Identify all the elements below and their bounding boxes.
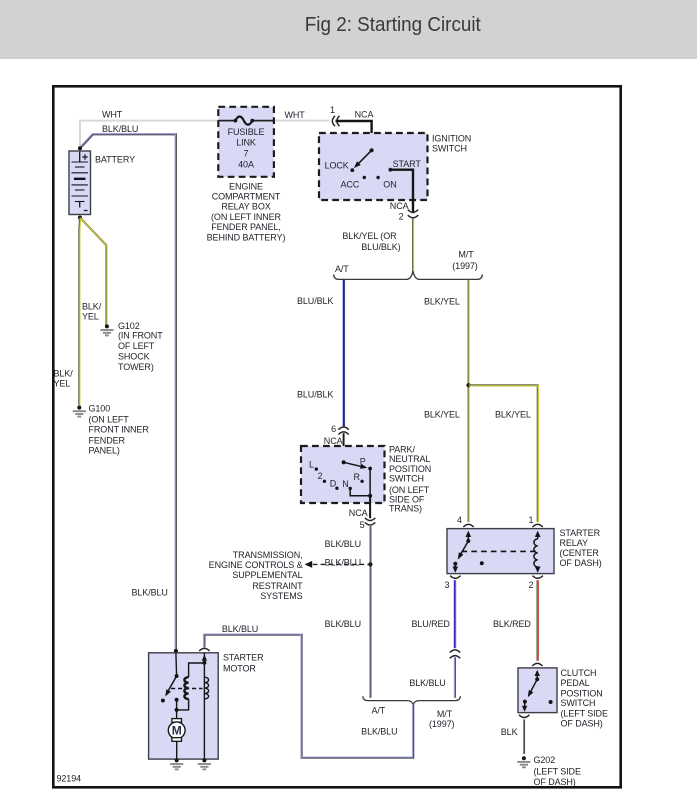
junction to transmission controls [368,562,372,566]
svg-text:P: P [360,457,366,467]
svg-text:FENDER: FENDER [89,435,126,445]
svg-text:(LEFT SIDE: (LEFT SIDE [534,767,581,777]
svg-text:BATTERY: BATTERY [95,155,135,165]
svg-text:A/T: A/T [335,264,349,274]
svg-text:(ON LEFT: (ON LEFT [89,414,130,424]
connector 5 pins [365,518,375,521]
svg-text:PEDAL: PEDAL [561,678,590,688]
svg-text:BLK/: BLK/ [82,302,102,312]
wire BLK/BLU merge to starter motor [204,635,413,758]
fusible link 7 element [235,117,252,125]
svg-text:SWITCH: SWITCH [389,474,424,484]
wire BLU/BLK to park neutral switch [344,280,346,427]
svg-text:92194: 92194 [57,774,82,784]
park/neutral position switch box [301,446,385,503]
park/neutral switch contacts [342,460,346,464]
junction BLK/BLU at starter [174,649,178,653]
starter solenoid contacts [175,653,178,676]
svg-text:7: 7 [244,148,249,158]
starter relay inner node [480,561,484,565]
ground G100 [77,406,81,410]
svg-text:RESTRAINT: RESTRAINT [252,581,303,591]
diagram frame [53,86,620,787]
svg-text:BLK/BLU: BLK/BLU [325,619,361,629]
svg-text:YEL: YEL [54,379,71,389]
clutch switch contacts [535,670,540,676]
title bar [0,0,697,59]
starter motor field coil [204,677,208,699]
svg-text:RELAY: RELAY [560,538,588,548]
svg-text:R: R [353,472,360,482]
junction BLK/YEL branch [466,383,470,387]
svg-text:M: M [172,724,182,738]
svg-text:N: N [342,479,348,489]
svg-text:YEL: YEL [82,312,99,322]
starter relay contact arm [466,531,472,537]
svg-text:RELAY BOX: RELAY BOX [221,202,270,212]
svg-text:START: START [393,159,422,169]
svg-text:(ON LEFT: (ON LEFT [389,485,430,495]
svg-text:COMPARTMENT: COMPARTMENT [212,192,281,202]
svg-text:BLK: BLK [501,727,518,737]
svg-text:SWITCH: SWITCH [432,143,467,153]
wire BLK/BLU battery to starter motor [80,134,176,652]
wire WHT battery to fusible link [80,121,218,149]
svg-text:G100: G100 [89,403,111,413]
svg-text:BLU/RED: BLU/RED [412,619,451,629]
fusible link 7 lead wires [218,120,235,122]
svg-text:FRONT INNER: FRONT INNER [89,424,150,434]
svg-text:PARK/: PARK/ [389,445,415,455]
split brace A/T M/T [334,271,483,279]
battery negative node [78,216,82,220]
wire P contact to pin 5 [369,469,371,496]
fusible link box [218,107,274,177]
wire ignition START output [390,170,413,214]
clutch pedal position switch box [518,668,557,713]
svg-text:OF DASH): OF DASH) [560,558,602,568]
svg-text:WHT: WHT [102,110,123,120]
svg-text:Fig 2: Starting Circuit: Fig 2: Starting Circuit [305,14,481,36]
svg-text:SUPPLEMENTAL: SUPPLEMENTAL [232,570,302,580]
svg-text:A/T: A/T [371,705,385,715]
svg-text:ENGINE CONTROLS &: ENGINE CONTROLS & [209,560,303,570]
battery positive node [78,146,82,150]
svg-text:(LEFT SIDE: (LEFT SIDE [561,708,608,718]
svg-text:BEHIND BATTERY): BEHIND BATTERY) [207,232,286,242]
svg-text:BLK/BLU: BLK/BLU [325,557,361,567]
svg-text:G202: G202 [534,755,556,765]
wire BLK/YEL battery to G102 [80,218,106,325]
svg-text:NCA: NCA [390,201,409,211]
connector relay pin 4 [463,524,473,527]
svg-text:STARTER: STARTER [223,653,264,663]
svg-text:FENDER PANEL,: FENDER PANEL, [211,222,281,232]
connector 6 pins [338,427,348,430]
connector relay pin 3 [450,576,460,579]
svg-text:M/T: M/T [437,709,453,719]
svg-text:2: 2 [399,212,404,222]
svg-text:BLU/BLK): BLU/BLK) [361,242,400,252]
wire BLU/RED relay pin 3 down [453,580,455,648]
wire BLK/RED relay pin 2 to clutch switch [536,580,538,661]
svg-text:PANEL): PANEL) [89,445,120,455]
svg-text:4: 4 [457,515,462,525]
wire BLK clutch to ground [523,719,525,754]
svg-text:STARTER: STARTER [560,528,601,538]
svg-text:BLK/BLU: BLK/BLU [102,124,138,134]
svg-text:POSITION: POSITION [389,464,431,474]
battery box [69,151,91,215]
svg-text:(ON LEFT INNER: (ON LEFT INNER [211,212,282,222]
connector relay pin 2 [533,576,543,579]
svg-text:FUSIBLE: FUSIBLE [228,127,265,137]
ground G102 [105,324,109,328]
starter relay dashed link [462,550,537,552]
svg-text:M/T: M/T [458,249,474,259]
ignition switch contacts [370,148,374,152]
starter motor M1 [172,719,182,723]
starter solenoid dashed link [171,688,203,690]
svg-text:OF LEFT: OF LEFT [118,341,155,351]
starter relay coil [535,531,541,537]
svg-text:BLK/BLU: BLK/BLU [325,539,361,549]
wire BLK/BLU pnp to merge [369,526,371,698]
svg-text:BLU/BLK: BLU/BLK [297,296,333,306]
svg-text:ENGINE: ENGINE [229,181,263,191]
connector starter motor pin [199,648,209,651]
wire BLK/YEL ignition to split [412,219,414,272]
wire BLK/YEL to relay pin 4 [468,280,470,522]
svg-text:BLK/BLU: BLK/BLU [409,678,445,688]
svg-text:TRANS): TRANS) [389,504,422,514]
svg-text:IGNITION: IGNITION [432,133,471,143]
wire BLK/YEL battery to G100 [78,218,81,406]
svg-text:NEUTRAL: NEUTRAL [389,454,430,464]
svg-text:TOWER): TOWER) [118,362,154,372]
svg-text:OF DASH): OF DASH) [534,777,576,787]
merge brace A/T M/T [363,696,461,704]
svg-text:6: 6 [331,424,336,434]
starter motor ground right [202,758,206,762]
svg-text:1: 1 [330,105,335,115]
svg-text:POSITION: POSITION [561,688,603,698]
svg-text:BLK/YEL (OR: BLK/YEL (OR [342,231,397,241]
svg-text:OF DASH): OF DASH) [561,718,603,728]
svg-text:40A: 40A [238,159,254,169]
svg-text:ON: ON [383,179,396,189]
svg-text:BLK/BLU: BLK/BLU [361,727,397,737]
svg-text:BLK/RED: BLK/RED [493,619,531,629]
ground G202 [522,756,526,760]
svg-text:WHT: WHT [285,110,306,120]
ignition switch box [319,133,428,200]
svg-text:D: D [330,479,337,489]
battery plates and polarity marks [79,152,81,162]
svg-text:SHOCK: SHOCK [118,352,150,362]
svg-text:MOTOR: MOTOR [223,664,256,674]
starter motor field line [203,653,205,761]
svg-text:BLK/BLU: BLK/BLU [222,624,258,634]
svg-text:NCA: NCA [355,110,374,120]
wire BLK/BLU M/T to merge [454,657,456,698]
connector clutch switch top [532,663,542,666]
svg-text:BLK/YEL: BLK/YEL [424,297,460,307]
svg-text:CLUTCH: CLUTCH [561,668,597,678]
svg-text:BLU/BLK: BLU/BLK [297,390,333,400]
arrow to transmission controls [305,561,313,568]
starter relay box U1 [447,529,554,574]
svg-text:BLK/YEL: BLK/YEL [495,410,531,420]
svg-text:SYSTEMS: SYSTEMS [260,591,302,601]
dashed branch to transmission controls [313,563,371,565]
wire connector 6 to PNP pivot [343,433,345,462]
starter motor ground left [175,758,179,762]
svg-text:LINK: LINK [236,137,256,147]
svg-text:BLK/YEL: BLK/YEL [424,410,460,420]
wire WHT fusible link to connector 1 [274,120,329,122]
svg-text:2: 2 [318,471,323,481]
svg-text:3: 3 [445,580,450,590]
connector relay pin 1 [533,524,543,527]
svg-text:NCA: NCA [349,508,368,518]
wire BLK/YEL branch to relay pin 1 [469,385,538,522]
svg-text:(IN FRONT: (IN FRONT [118,330,163,340]
svg-text:LOCK: LOCK [325,160,349,170]
svg-text:SWITCH: SWITCH [561,698,596,708]
wire ignition feed [336,121,372,150]
starter solenoid coil [189,663,205,677]
connector M/T pins [450,650,460,653]
svg-text:BLK/: BLK/ [54,369,74,379]
svg-text:(CENTER: (CENTER [560,548,600,558]
svg-text:BLK/BLU: BLK/BLU [132,587,168,597]
svg-text:NCA: NCA [324,436,343,446]
svg-text:2: 2 [529,580,534,590]
svg-text:(1997): (1997) [452,261,478,271]
connector 2 pins [408,210,418,213]
connector 1 pins [332,116,335,126]
svg-text:1: 1 [529,515,534,525]
svg-text:(1997): (1997) [429,719,455,729]
starter motor box [149,653,219,759]
svg-text:ACC: ACC [340,179,359,189]
connector clutch switch bottom [519,715,529,718]
svg-text:L: L [309,460,314,470]
svg-text:5: 5 [360,520,365,530]
svg-text:TRANSMISSION,: TRANSMISSION, [233,550,303,560]
